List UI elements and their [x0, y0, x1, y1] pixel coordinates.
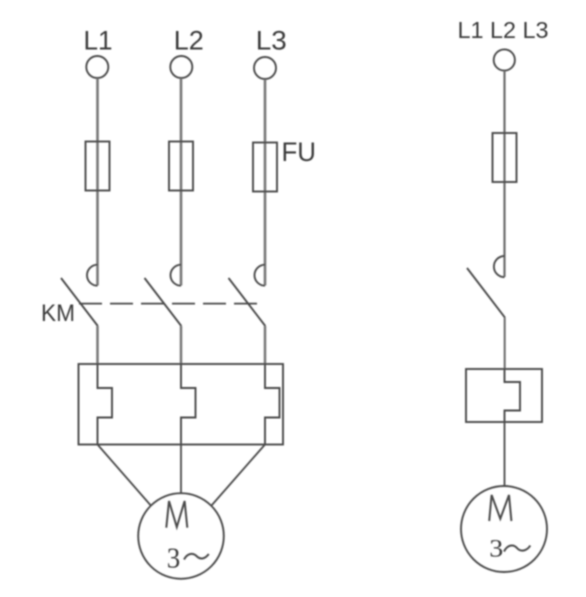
wire overload to motor (right) — [504, 422, 506, 486]
svg-text:3: 3 — [167, 543, 181, 575]
fuse FU pole 1 — [86, 142, 110, 191]
terminal L3 — [254, 57, 276, 79]
terminal (right) — [494, 49, 515, 70]
wire pole 2 to motor — [180, 445, 182, 494]
contact KM fixed terminal pole 2 — [171, 265, 181, 286]
contactor KM linkage (dashed) — [79, 303, 258, 305]
svg-text:L1: L1 — [84, 26, 113, 56]
contact blade (right) — [467, 268, 505, 318]
motor tilde (right) — [504, 545, 530, 551]
fuse (right) — [493, 133, 517, 182]
contact KM fixed terminal pole 3 — [255, 265, 265, 286]
heater element pole 1 — [98, 364, 113, 445]
wire L2 terminal to contact — [180, 78, 183, 285]
svg-text:3: 3 — [489, 535, 503, 562]
wire L1 terminal to contact — [96, 78, 99, 285]
svg-text:L1 L2 L3: L1 L2 L3 — [458, 17, 549, 43]
heater element pole 3 — [265, 364, 280, 445]
wire L3 terminal to contact — [264, 79, 267, 285]
motor M circle (left) — [138, 493, 224, 579]
contact KM blade pole 3 — [229, 278, 266, 326]
contact KM blade pole 2 — [145, 278, 182, 326]
thermal overload box — [79, 364, 284, 445]
contact KM blade pole 1 — [61, 278, 98, 326]
terminal L1 — [86, 56, 108, 78]
contact fixed terminal (right) — [494, 256, 505, 277]
motor letter M (left) — [166, 501, 187, 528]
heater element (right) — [505, 369, 521, 422]
svg-text:L2: L2 — [174, 26, 204, 56]
wire blade to overload box (right) — [504, 318, 506, 369]
motor letter M (right) — [489, 495, 511, 521]
svg-text:FU: FU — [282, 137, 317, 167]
contact KM fixed terminal pole 1 — [87, 265, 98, 286]
wire pole 1 blade to overload box — [96, 326, 99, 364]
wire pole 3 blade to overload box — [264, 326, 267, 364]
svg-text:KM: KM — [41, 300, 75, 327]
wire pole 3 to motor — [212, 445, 266, 506]
fuse FU pole 2 — [169, 142, 193, 191]
terminal L2 — [170, 56, 192, 78]
svg-text:L3: L3 — [256, 26, 287, 56]
wire terminal to contact (right) — [503, 71, 505, 277]
motor M circle (right) — [461, 486, 547, 572]
thermal overload box (right) — [466, 369, 542, 422]
motor tilde (left) — [184, 554, 209, 560]
wire pole 2 blade to overload box — [180, 326, 183, 364]
heater element pole 2 — [181, 364, 196, 445]
fuse FU pole 3 — [253, 143, 277, 192]
wire pole 1 to motor — [98, 445, 151, 506]
